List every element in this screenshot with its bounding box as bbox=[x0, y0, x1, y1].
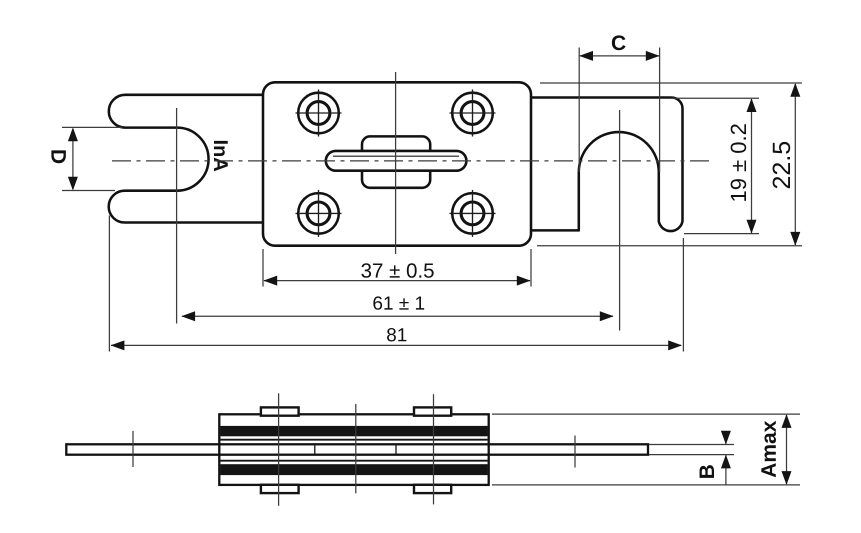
label 22.5 bbox=[773, 142, 791, 188]
dimension 22.5 bbox=[537, 83, 802, 246]
dimension 61 +-1 bbox=[177, 108, 614, 324]
label C bbox=[612, 35, 626, 50]
blade centerline tick left bbox=[132, 431, 134, 467]
dimension D bbox=[62, 127, 122, 190]
hole top-left bbox=[296, 90, 342, 137]
blade joint tick right bbox=[395, 445, 397, 454]
dimension 37 +-0.5 bbox=[263, 249, 531, 287]
side view blade bbox=[66, 444, 648, 454]
side view centerline right bbox=[433, 394, 435, 504]
vertical centerline of body bbox=[395, 72, 397, 254]
side view centerline middle bbox=[355, 404, 357, 493]
top tab left bbox=[261, 407, 299, 415]
hole bottom-left bbox=[296, 190, 342, 237]
side view body outline bbox=[219, 414, 488, 485]
label D bbox=[51, 150, 65, 163]
label 19 +-0.2 bbox=[731, 124, 747, 201]
label Amax bbox=[761, 421, 776, 478]
fuse element window (stadium slot) bbox=[326, 151, 467, 171]
dimension Amax bbox=[492, 414, 800, 485]
hook terminal (right) bbox=[531, 98, 683, 232]
top black bar bbox=[220, 426, 487, 436]
top thin black line bbox=[220, 439, 487, 441]
fork terminal (left blade) bbox=[109, 95, 263, 223]
fuse body bbox=[263, 82, 531, 245]
label 81 bbox=[387, 328, 406, 341]
dimension C bbox=[579, 48, 659, 173]
label InA bbox=[214, 141, 228, 171]
hole top-right bbox=[450, 90, 496, 137]
blade centerline tick right bbox=[574, 436, 576, 468]
top tab right bbox=[414, 407, 451, 415]
dimension B bbox=[649, 431, 734, 485]
element inner line bbox=[333, 155, 459, 157]
label 61 +-1 bbox=[373, 296, 424, 309]
label 37 +-0.5 bbox=[361, 263, 433, 278]
bottom thin black line bbox=[220, 460, 487, 462]
dimension 19 +-0.2 bbox=[671, 98, 759, 233]
label B bbox=[700, 465, 714, 478]
hole bottom-right bbox=[450, 190, 496, 237]
bottom black bar bbox=[220, 464, 487, 475]
notch centerline / 61 right extension bbox=[619, 110, 621, 331]
bottom tab left bbox=[261, 485, 299, 493]
side view centerline left bbox=[278, 393, 280, 506]
horizontal dash-dot centerline bbox=[112, 160, 714, 162]
center boss square bbox=[362, 136, 430, 187]
dimension 81 bbox=[109, 216, 683, 352]
blade joint tick left bbox=[314, 445, 316, 454]
bottom tab right bbox=[414, 485, 451, 493]
